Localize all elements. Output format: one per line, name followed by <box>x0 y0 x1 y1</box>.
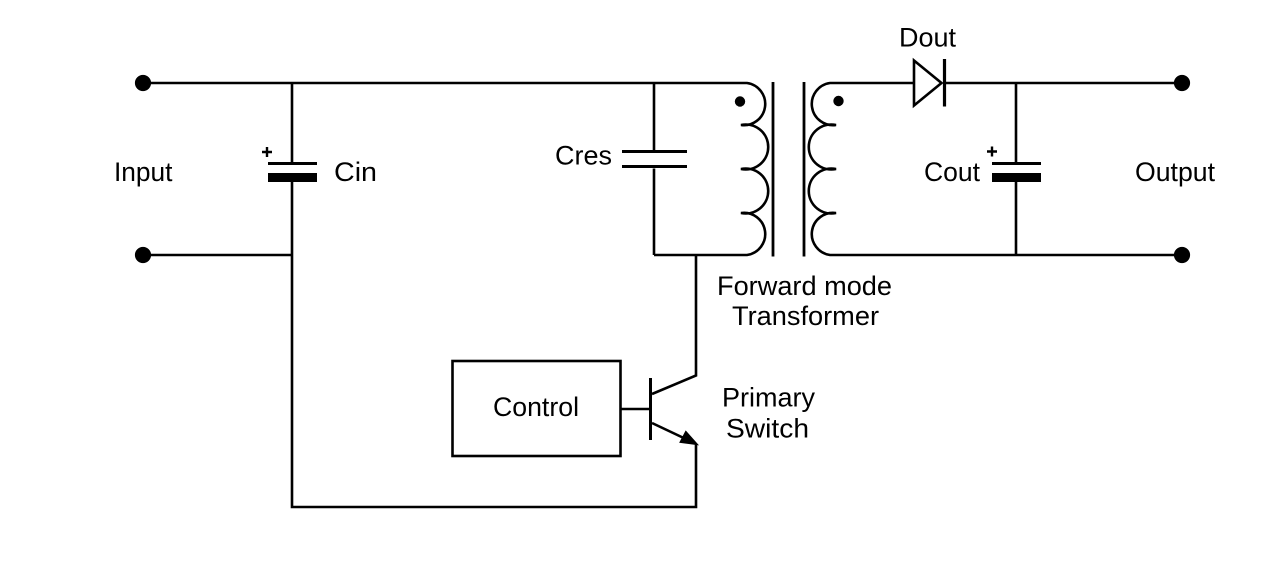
svg-text:Primary: Primary <box>722 383 815 413</box>
svg-text:Switch: Switch <box>726 414 809 444</box>
svg-text:Cin: Cin <box>334 157 377 187</box>
svg-text:Input: Input <box>114 157 173 187</box>
svg-text:Control: Control <box>493 392 579 422</box>
svg-text:Transformer: Transformer <box>732 301 879 331</box>
svg-text:Output: Output <box>1135 157 1215 187</box>
svg-text:Forward mode: Forward mode <box>717 271 892 301</box>
svg-text:Cout: Cout <box>924 157 980 187</box>
svg-text:Dout: Dout <box>899 23 956 53</box>
svg-text:Cres: Cres <box>555 141 612 171</box>
